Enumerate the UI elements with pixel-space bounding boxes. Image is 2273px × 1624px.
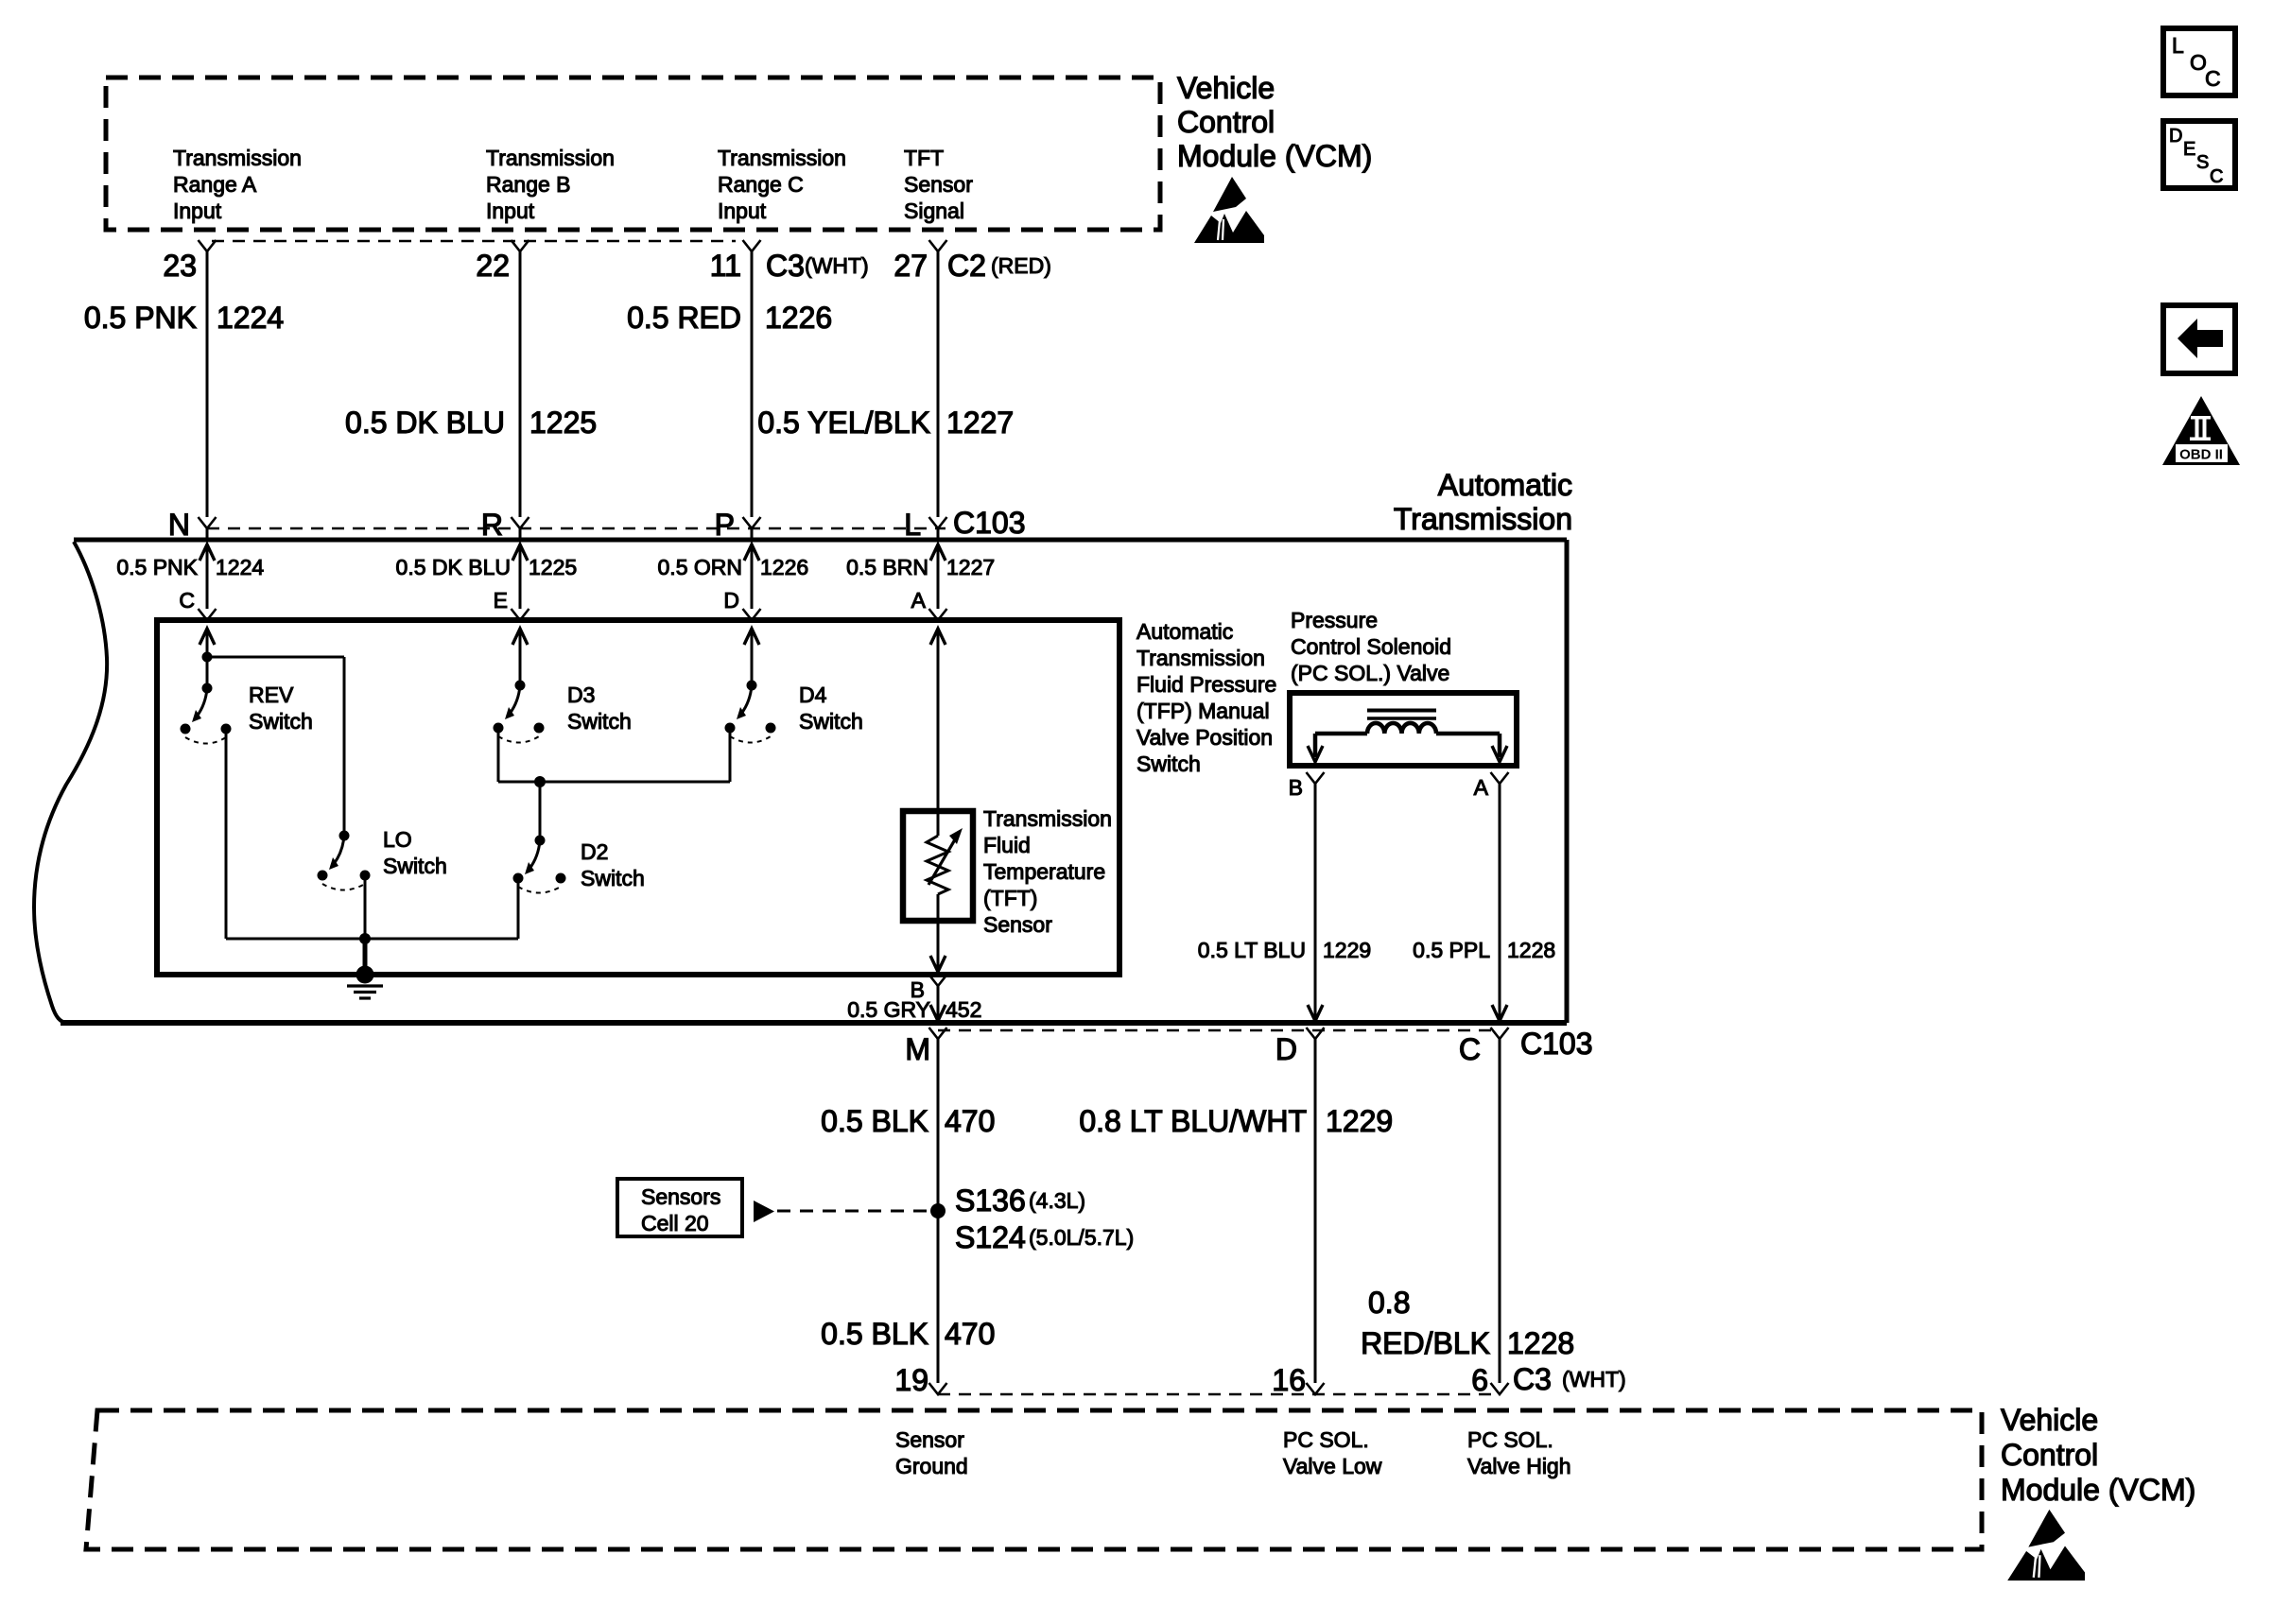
- arrow into TFP box at pin C: [200, 629, 215, 657]
- label 0.5 PPL 1228: [1413, 938, 1555, 962]
- wire D4 contact down-link: [729, 728, 732, 782]
- pin D (bottom): [1275, 1028, 1325, 1066]
- svg-text:1224: 1224: [217, 301, 284, 335]
- svg-text:Control Solenoid: Control Solenoid: [1291, 634, 1451, 659]
- svg-text:D2: D2: [581, 839, 608, 864]
- svg-text:C2: C2: [947, 249, 986, 283]
- svg-text:D4: D4: [799, 682, 827, 707]
- icon DESC: [2163, 121, 2235, 188]
- label PC SOL Valve Low: [1283, 1427, 1382, 1478]
- svg-text:0.5 DK BLU: 0.5 DK BLU: [345, 406, 505, 440]
- svg-text:L: L: [904, 508, 921, 542]
- svg-text:R: R: [481, 508, 503, 542]
- label Transmission Range C at x795: [718, 146, 846, 223]
- REV switch: [181, 652, 232, 744]
- junction dot D2 tap: [534, 776, 546, 787]
- svg-text:1228: 1228: [1507, 938, 1555, 962]
- svg-text:1229: 1229: [1326, 1104, 1393, 1138]
- label 0.5 LT BLU 1229: [1198, 938, 1371, 962]
- svg-text:Switch: Switch: [567, 709, 632, 734]
- label D2 Switch: [581, 839, 645, 890]
- label 0.5 BRN 1227 (inner): [846, 555, 995, 579]
- pin 23 connector: [163, 240, 216, 283]
- label C103 (bottom): [1520, 1027, 1593, 1061]
- svg-text:0.5 PNK: 0.5 PNK: [116, 555, 198, 579]
- svg-text:0.5 PPL: 0.5 PPL: [1413, 938, 1490, 962]
- svg-text:D3: D3: [567, 682, 595, 707]
- svg-text:S: S: [2196, 152, 2209, 173]
- dashed reference line: [777, 1210, 929, 1213]
- svg-text:22: 22: [476, 249, 510, 283]
- svg-text:Range B: Range B: [486, 172, 571, 197]
- svg-text:(TFT): (TFT): [983, 886, 1037, 910]
- svg-text:L: L: [2172, 33, 2184, 58]
- ESD symbol (bottom VCM): [2007, 1510, 2085, 1581]
- svg-text:(4.3L): (4.3L): [1029, 1188, 1085, 1213]
- Sensors Cell 20 box: [617, 1179, 742, 1236]
- label TFP switch: [1136, 619, 1276, 776]
- svg-text:(WHT): (WHT): [1562, 1367, 1626, 1391]
- wire 1224 inside transmission (pin C): [199, 544, 217, 620]
- svg-text:Valve High: Valve High: [1467, 1454, 1571, 1478]
- svg-text:C: C: [1459, 1032, 1481, 1066]
- svg-text:C: C: [179, 588, 195, 613]
- TFP manual valve position switch box: [157, 620, 1119, 975]
- TFT thermistor zigzag: [927, 828, 963, 921]
- label Pressure Control Solenoid valve: [1291, 608, 1451, 685]
- svg-text:Vehicle: Vehicle: [1177, 71, 1275, 105]
- label TFT Sensor at x992: [904, 146, 973, 223]
- solenoid core bars: [1367, 711, 1436, 719]
- svg-text:B: B: [1289, 775, 1303, 800]
- svg-text:Transmission: Transmission: [486, 146, 615, 170]
- wire 1227 YEL/BLK (VCM to C103): [937, 251, 940, 517]
- wire D2 feed: [539, 782, 542, 840]
- pin N: [168, 508, 217, 542]
- svg-text:Sensor: Sensor: [904, 172, 973, 197]
- svg-text:Switch: Switch: [383, 854, 447, 878]
- wire 1229 LT BLU (solenoid to C103): [1308, 784, 1323, 1021]
- wire D3 contact down: [497, 728, 500, 782]
- svg-text:Control: Control: [2001, 1438, 2098, 1472]
- svg-text:S136: S136: [955, 1183, 1026, 1218]
- arrow into TFP box at pin E: [512, 629, 528, 685]
- label LO Switch: [383, 827, 447, 878]
- svg-text:Transmission: Transmission: [718, 146, 846, 170]
- D2 switch: [513, 836, 566, 893]
- pin M: [905, 1028, 946, 1066]
- pin 16: [1272, 1363, 1324, 1397]
- pin 11 connector C3: [710, 240, 869, 283]
- junction dot bus/LO: [359, 933, 371, 944]
- connector line C3 (top, dashed): [212, 240, 736, 243]
- label TFT sensor: [983, 806, 1112, 937]
- wire 1229 LT BLU/WHT (C103 to VCM): [1314, 1039, 1317, 1383]
- wire 1228 PPL (solenoid to C103): [1492, 784, 1507, 1021]
- reference arrow: [754, 1201, 774, 1222]
- pin B connector (PC SOL): [1289, 772, 1325, 800]
- svg-text:Module (VCM): Module (VCM): [1177, 139, 1372, 173]
- label 0.5 BLK 470 (upper): [821, 1104, 995, 1138]
- svg-text:P: P: [715, 508, 735, 542]
- wire 1225 inside transmission (pin E): [512, 544, 529, 620]
- pin 27 connector C2: [894, 240, 1050, 283]
- icon OBD II triangle: [2162, 396, 2240, 465]
- label 0.5 BLK 470 (lower): [821, 1317, 995, 1351]
- svg-text:0.5 LT BLU: 0.5 LT BLU: [1198, 938, 1306, 962]
- label 0.8 LT BLU/WHT 1229: [1079, 1104, 1393, 1138]
- VCM title (top right): [1177, 71, 1372, 173]
- wire 470 BLK upper segment: [937, 1039, 940, 1211]
- label D3 Switch: [567, 682, 632, 734]
- wire into TFT sensor: [937, 811, 940, 836]
- svg-text:Switch: Switch: [1136, 752, 1201, 776]
- label 0.5 DK BLU 1225 (inner): [396, 555, 578, 579]
- pin C (bottom): [1459, 1028, 1509, 1066]
- icon LOC: [2163, 28, 2235, 95]
- label D4 Switch: [799, 682, 863, 734]
- svg-text:Sensors: Sensors: [641, 1184, 720, 1209]
- solenoid coil: [1308, 723, 1507, 762]
- wire D3-D4 link: [498, 781, 730, 784]
- wire bus to ground: [226, 938, 518, 941]
- label 0.5 YEL/BLK 1227: [757, 406, 1014, 440]
- svg-text:1229: 1229: [1323, 938, 1371, 962]
- svg-text:C3: C3: [766, 249, 805, 283]
- pin letter A: [911, 588, 927, 613]
- splice S136/S124: [930, 1183, 1134, 1254]
- label 0.5 DK BLU 1225: [345, 406, 597, 440]
- svg-text:REV: REV: [249, 682, 294, 707]
- svg-text:1225: 1225: [529, 406, 597, 440]
- svg-text:Signal: Signal: [904, 199, 964, 223]
- arrow into TFP box at pin A: [930, 629, 946, 811]
- svg-text:452: 452: [946, 997, 981, 1022]
- svg-text:(PC SOL.) Valve: (PC SOL.) Valve: [1291, 661, 1449, 685]
- svg-text:(TFP) Manual: (TFP) Manual: [1136, 699, 1270, 723]
- svg-text:23: 23: [163, 249, 197, 283]
- Automatic Transmission box: [34, 540, 1567, 1024]
- pin letter D: [723, 588, 739, 613]
- wire REV tap to LO switch: [207, 657, 344, 836]
- svg-text:0.5 YEL/BLK: 0.5 YEL/BLK: [757, 406, 930, 440]
- svg-text:A: A: [911, 588, 927, 613]
- svg-text:Sensor: Sensor: [895, 1427, 964, 1452]
- connector C3 bottom dashed line: [938, 1393, 1492, 1396]
- svg-text:1225: 1225: [529, 555, 577, 579]
- svg-text:C3: C3: [1513, 1362, 1552, 1396]
- wire REV NC contact down: [225, 729, 228, 939]
- label Transmission Range B at x550: [486, 146, 615, 223]
- pin 22 connector: [476, 240, 529, 283]
- TFT sensor box: [903, 811, 973, 921]
- svg-text:Range A: Range A: [173, 172, 257, 197]
- svg-text:470: 470: [945, 1317, 995, 1351]
- label Automatic Transmission: [1394, 468, 1572, 536]
- svg-text:Cell 20: Cell 20: [641, 1211, 709, 1235]
- svg-text:TFT: TFT: [904, 146, 944, 170]
- svg-text:C103: C103: [953, 506, 1026, 540]
- svg-text:Fluid: Fluid: [983, 833, 1031, 857]
- Vehicle Control Module (VCM) bottom box: [86, 1410, 1982, 1549]
- wire 1227 inside transmission (pin A): [929, 544, 947, 620]
- wire 452 GRY segment: [930, 986, 946, 1021]
- svg-text:C: C: [2210, 166, 2223, 187]
- label Transmission Range A at x219: [173, 146, 302, 223]
- svg-text:Pressure: Pressure: [1291, 608, 1378, 632]
- svg-text:1224: 1224: [216, 555, 264, 579]
- svg-text:0.5 BLK: 0.5 BLK: [821, 1104, 928, 1138]
- svg-text:Input: Input: [718, 199, 767, 223]
- svg-text:C103: C103: [1520, 1027, 1593, 1061]
- svg-text:0.5 ORN: 0.5 ORN: [658, 555, 742, 579]
- svg-text:Valve Low: Valve Low: [1283, 1454, 1382, 1478]
- pin B connector (TFT out): [911, 975, 947, 1002]
- svg-text:S124: S124: [955, 1220, 1026, 1254]
- svg-text:6: 6: [1471, 1363, 1488, 1397]
- label 0.5 RED 1226: [627, 301, 832, 335]
- wire 1226 inside transmission (pin D): [743, 544, 761, 620]
- svg-text:Vehicle: Vehicle: [2001, 1403, 2098, 1437]
- svg-text:Input: Input: [486, 199, 535, 223]
- svg-text:A: A: [1474, 775, 1489, 800]
- svg-text:Automatic: Automatic: [1438, 468, 1572, 502]
- svg-text:Module (VCM): Module (VCM): [2001, 1473, 2195, 1507]
- label REV Switch: [249, 682, 313, 734]
- svg-text:0.5 BRN: 0.5 BRN: [846, 555, 928, 579]
- pin A connector (PC SOL): [1474, 772, 1509, 800]
- label Sensor Ground: [895, 1427, 968, 1478]
- pin 19: [894, 1363, 946, 1397]
- svg-text:0.5 PNK: 0.5 PNK: [84, 301, 197, 335]
- svg-text:1228: 1228: [1507, 1326, 1574, 1360]
- svg-text:1226: 1226: [760, 555, 808, 579]
- connector C103 top dashed line: [207, 527, 946, 530]
- svg-text:D: D: [2169, 126, 2182, 147]
- svg-text:(5.0L/5.7L): (5.0L/5.7L): [1029, 1225, 1134, 1250]
- svg-text:1227: 1227: [946, 406, 1014, 440]
- wire 1226 RED (VCM to C103): [751, 251, 754, 517]
- svg-text:Switch: Switch: [799, 709, 863, 734]
- svg-text:Valve Position: Valve Position: [1136, 725, 1273, 750]
- D4 switch: [725, 681, 776, 743]
- svg-text:0.5 RED: 0.5 RED: [627, 301, 741, 335]
- svg-text:D: D: [1275, 1032, 1297, 1066]
- svg-text:27: 27: [894, 249, 928, 283]
- svg-text:0.5 GRY: 0.5 GRY: [847, 997, 930, 1022]
- svg-text:Switch: Switch: [581, 866, 645, 890]
- svg-text:M: M: [905, 1032, 930, 1066]
- svg-text:RED/BLK: RED/BLK: [1361, 1326, 1490, 1360]
- label 0.5 PNK 1224: [84, 301, 284, 335]
- svg-text:Ground: Ground: [895, 1454, 968, 1478]
- arrow into TFP box at pin D: [744, 629, 759, 685]
- ground symbol: [347, 939, 383, 998]
- svg-text:0.5 DK BLU: 0.5 DK BLU: [396, 555, 511, 579]
- icon back arrow: [2163, 305, 2235, 373]
- PC SOL valve box: [1290, 693, 1517, 766]
- pin L: [904, 508, 946, 542]
- svg-text:Fluid Pressure: Fluid Pressure: [1136, 672, 1276, 697]
- label 0.8 RED/BLK 1228: [1361, 1286, 1574, 1360]
- svg-text:Sensor: Sensor: [983, 912, 1052, 937]
- svg-text:19: 19: [894, 1363, 928, 1397]
- svg-text:LO: LO: [383, 827, 412, 852]
- svg-text:0.8 LT BLU/WHT: 0.8 LT BLU/WHT: [1079, 1104, 1307, 1138]
- pin P: [715, 508, 761, 542]
- D3 switch: [494, 681, 545, 743]
- LO switch: [318, 831, 371, 890]
- pin 6 connector C3: [1471, 1362, 1625, 1397]
- svg-text:PC SOL.: PC SOL.: [1283, 1427, 1369, 1452]
- pin R: [481, 508, 529, 542]
- svg-text:PC SOL.: PC SOL.: [1467, 1427, 1553, 1452]
- pin letter C: [179, 588, 195, 613]
- svg-text:Transmission: Transmission: [1394, 502, 1572, 536]
- svg-text:16: 16: [1272, 1363, 1306, 1397]
- label C103 (top): [953, 506, 1026, 540]
- svg-text:0.8: 0.8: [1368, 1286, 1410, 1320]
- wire 1228 RED/BLK (C103 to VCM): [1499, 1039, 1501, 1383]
- svg-text:(RED): (RED): [991, 253, 1051, 278]
- svg-text:(WHT): (WHT): [805, 253, 869, 278]
- svg-text:Control: Control: [1177, 105, 1275, 139]
- svg-text:11: 11: [710, 249, 741, 283]
- svg-text:OBD II: OBD II: [2179, 447, 2223, 463]
- label 0.5 GRY 452: [847, 997, 981, 1022]
- wire 1224 PNK (VCM to C103): [206, 251, 209, 517]
- wire D2 contact down: [517, 878, 520, 939]
- wire 470 BLK lower segment: [937, 1211, 940, 1383]
- connector C103 bottom dashed line: [938, 1029, 1492, 1032]
- VCM title (bottom right): [2001, 1403, 2195, 1507]
- label PC SOL Valve High: [1467, 1427, 1571, 1478]
- svg-text:Transmission: Transmission: [173, 146, 302, 170]
- label 0.5 ORN 1226 (inner): [658, 555, 809, 579]
- ESD symbol (top VCM): [1194, 177, 1264, 243]
- svg-text:Input: Input: [173, 199, 222, 223]
- svg-text:Transmission: Transmission: [1136, 646, 1265, 670]
- svg-text:470: 470: [945, 1104, 995, 1138]
- svg-text:E: E: [2183, 139, 2195, 160]
- svg-text:1226: 1226: [765, 301, 832, 335]
- svg-text:C: C: [2205, 66, 2221, 91]
- svg-text:0.5 BLK: 0.5 BLK: [821, 1317, 928, 1351]
- svg-text:N: N: [168, 508, 190, 542]
- svg-text:1227: 1227: [946, 555, 995, 579]
- Vehicle Control Module (VCM) top box: [106, 78, 1160, 230]
- pin letter E: [494, 588, 508, 613]
- svg-text:D: D: [723, 588, 739, 613]
- wire LO NC contact down: [364, 875, 367, 939]
- wire TFT to TFP box edge: [930, 921, 946, 972]
- label 0.5 PNK 1224 (inner): [116, 555, 264, 579]
- wire 1225 DK BLU (VCM to C103): [519, 251, 522, 517]
- svg-text:Range C: Range C: [718, 172, 804, 197]
- svg-text:E: E: [494, 588, 508, 613]
- svg-text:Transmission: Transmission: [983, 806, 1112, 831]
- svg-text:Automatic: Automatic: [1136, 619, 1233, 644]
- svg-text:Temperature: Temperature: [983, 859, 1105, 884]
- svg-text:Switch: Switch: [249, 709, 313, 734]
